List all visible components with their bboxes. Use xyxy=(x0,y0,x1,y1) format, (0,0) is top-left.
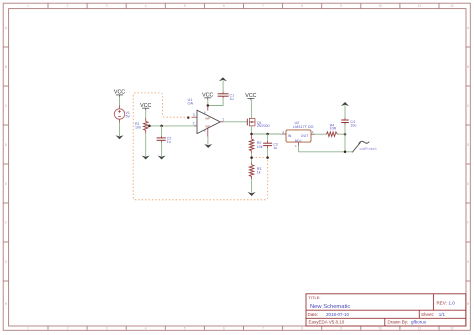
junction at C3 bottom xyxy=(266,156,269,159)
svg-text:REV:: REV: xyxy=(437,301,447,306)
wire VCC flag to V1 plus pin xyxy=(119,97,121,109)
svg-text:INN: INN xyxy=(205,125,210,129)
svg-text:ADJ: ADJ xyxy=(295,139,302,143)
wire junction to C1 xyxy=(208,96,223,105)
svg-text:1: 1 xyxy=(222,118,224,122)
svg-text:10: 10 xyxy=(379,326,383,330)
ground under C2 xyxy=(158,156,166,160)
ground above C4 (flipped up) xyxy=(341,102,349,106)
op-amp U1 body xyxy=(197,110,220,133)
svg-text:IN: IN xyxy=(288,134,292,138)
probe coilProbe1 xyxy=(352,141,369,152)
svg-text:8: 8 xyxy=(301,4,303,8)
svg-text:7: 7 xyxy=(262,326,264,330)
svg-text:gfborus: gfborus xyxy=(411,320,427,325)
svg-text:1u: 1u xyxy=(167,140,171,144)
svg-text:3: 3 xyxy=(106,326,108,330)
wire Q1 source down to rail xyxy=(250,126,252,134)
wire C1 to flipped ground xyxy=(222,81,224,94)
power flag VCC at U1 xyxy=(202,93,213,100)
wire VCC flag to U1 V+ junction xyxy=(207,99,209,105)
wire U2 ADJ return to output node xyxy=(299,146,353,152)
svg-text:6: 6 xyxy=(223,4,225,8)
regulator U2 body xyxy=(286,130,311,142)
node at op-amp pin 3 (dashed net end dot) xyxy=(187,117,189,119)
svg-text:4: 4 xyxy=(145,4,147,8)
wire R3 to ground xyxy=(251,176,253,192)
junction at R2/R3 divider node xyxy=(250,156,253,159)
op-amp U1 V+ pin lead xyxy=(207,106,209,111)
wire R1 tap to op-amp IN- xyxy=(146,125,194,127)
svg-text:F: F xyxy=(5,221,7,225)
junction at C3 branch xyxy=(266,133,269,136)
power flag VCC at V1 xyxy=(114,90,125,97)
wire output node up to C4 xyxy=(344,123,346,135)
resistor R1 xyxy=(144,121,148,130)
svg-text:B: B xyxy=(5,65,7,69)
svg-text:VCC: VCC xyxy=(114,90,125,96)
U2 pin 2 lead (OUT) xyxy=(311,133,315,135)
svg-text:3: 3 xyxy=(106,4,108,8)
svg-text:1/1: 1/1 xyxy=(439,312,446,317)
svg-text:12: 12 xyxy=(450,4,454,8)
svg-text:7: 7 xyxy=(262,4,264,8)
wire VCC flag to R1 pin 1 xyxy=(145,110,147,122)
U2 pin 1 lead (ADJ) xyxy=(298,142,300,146)
power flag VCC at R1 xyxy=(140,103,151,110)
ground under V1 xyxy=(116,135,124,139)
svg-text:5: 5 xyxy=(184,4,186,8)
svg-text:11: 11 xyxy=(418,4,422,8)
svg-text:EasyEDA V5.8.10: EasyEDA V5.8.10 xyxy=(309,320,345,325)
op-amp U1 V- pin lead xyxy=(207,128,209,137)
power flag VCC at Q1 xyxy=(245,93,256,100)
svg-text:10R: 10R xyxy=(330,126,337,130)
capacitor C1 xyxy=(218,94,229,96)
wire U2 OUT to R4 xyxy=(314,133,326,135)
junction at R1 tap xyxy=(148,125,151,128)
svg-text:1u: 1u xyxy=(273,146,277,150)
U2 pin 3 lead (IN) xyxy=(282,133,286,135)
svg-text:10k: 10k xyxy=(257,145,263,149)
svg-text:8: 8 xyxy=(301,326,303,330)
junction at C2 branch xyxy=(160,125,163,128)
svg-text:4: 4 xyxy=(145,326,147,330)
svg-text:VCC: VCC xyxy=(202,93,213,99)
svg-text:12: 12 xyxy=(450,326,454,330)
wire U1 output to Q1 gate xyxy=(223,121,247,123)
svg-text:coilProbe1: coilProbe1 xyxy=(360,147,377,151)
svg-text:Sheet:: Sheet: xyxy=(421,312,434,317)
wire VCC flag to Q1 drain xyxy=(250,100,252,118)
svg-text:Date:: Date: xyxy=(308,312,319,317)
capacitor C2 xyxy=(157,138,166,140)
svg-text:10: 10 xyxy=(379,4,383,8)
svg-text:F: F xyxy=(467,221,469,225)
resistor R4 xyxy=(326,132,337,137)
junction at Q1 source xyxy=(250,133,253,136)
svg-text:1: 1 xyxy=(27,4,29,8)
wire R1 pin 2 to ground xyxy=(145,130,147,156)
wire R2 to divider node xyxy=(251,151,253,165)
op-amp U1 pin 1 lead (output) xyxy=(220,121,223,123)
ground under R1 xyxy=(142,156,150,160)
op-amp U1 pin 3 lead (IN+) xyxy=(192,116,198,118)
wire U1 V- to ground xyxy=(207,137,209,145)
ground under U1 xyxy=(204,144,212,148)
svg-text:VCC: VCC xyxy=(245,93,256,99)
svg-text:LM317T DG: LM317T DG xyxy=(293,125,314,129)
wire V1 minus pin to ground xyxy=(119,119,121,136)
capacitor C4 xyxy=(341,120,349,123)
svg-text:3: 3 xyxy=(193,113,195,117)
svg-text:VCC: VCC xyxy=(140,103,151,109)
svg-text:9: 9 xyxy=(340,326,342,330)
svg-text:5: 5 xyxy=(184,326,186,330)
wire C4 to flipped ground xyxy=(344,105,346,120)
ground under R3 xyxy=(248,192,256,196)
svg-text:TITLE:: TITLE: xyxy=(309,295,321,300)
svg-text:OA: OA xyxy=(188,102,194,106)
capacitor C3 xyxy=(263,143,272,145)
wire source rail to U2 IN xyxy=(252,133,284,135)
svg-text:2: 2 xyxy=(67,326,69,330)
junction at U1 V+ xyxy=(207,104,210,107)
wire dashed feedback net (op-amp IN+ to R2/R3 divider node) xyxy=(133,93,268,200)
svg-text:5V: 5V xyxy=(126,115,131,119)
svg-text:E: E xyxy=(467,182,469,186)
svg-text:2N7000: 2N7000 xyxy=(257,124,270,128)
svg-text:INP: INP xyxy=(205,116,210,120)
voltage source V1 xyxy=(114,109,124,119)
svg-text:E: E xyxy=(5,182,7,186)
svg-text:2: 2 xyxy=(67,4,69,8)
svg-text:New Schematic: New Schematic xyxy=(310,304,350,310)
resistor R2 xyxy=(249,134,253,151)
svg-text:1.0: 1.0 xyxy=(449,301,456,306)
junction at output node xyxy=(344,133,347,136)
transistor Q1 xyxy=(247,118,255,126)
svg-text:2: 2 xyxy=(193,122,195,126)
svg-text:Drawn By:: Drawn By: xyxy=(388,320,409,325)
svg-text:11: 11 xyxy=(418,326,422,330)
svg-text:1u: 1u xyxy=(230,97,234,101)
wire junction to C2 xyxy=(161,126,163,138)
op-amp U1 pin 2 lead (IN-) xyxy=(194,125,197,127)
svg-text:10u: 10u xyxy=(350,124,356,128)
svg-text:OUT: OUT xyxy=(301,134,309,138)
wire C2 to ground xyxy=(161,140,163,156)
wire output node down to return xyxy=(344,134,346,152)
svg-text:100: 100 xyxy=(135,125,141,129)
wire C3 to divider node xyxy=(267,146,269,158)
resistor R3 xyxy=(249,165,253,177)
svg-text:9: 9 xyxy=(340,4,342,8)
svg-text:1: 1 xyxy=(27,326,29,330)
wire R4 to output node xyxy=(338,133,345,135)
ground above C1 (flipped up) xyxy=(219,77,227,81)
junction at return node xyxy=(344,151,347,154)
svg-text:B: B xyxy=(467,65,469,69)
svg-text:2018-07-10: 2018-07-10 xyxy=(326,312,350,317)
svg-text:6: 6 xyxy=(223,326,225,330)
wire rail to C3 xyxy=(267,134,269,143)
svg-text:1k: 1k xyxy=(257,171,261,175)
